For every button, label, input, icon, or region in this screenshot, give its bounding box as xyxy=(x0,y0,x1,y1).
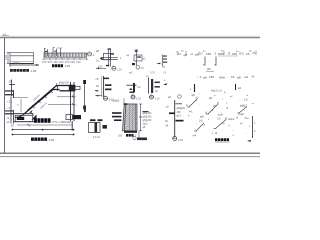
item G2 xyxy=(205,90,222,115)
svg-text:1:8: 1:8 xyxy=(244,99,248,102)
svg-text:φ8: φ8 xyxy=(237,76,241,80)
item G3 xyxy=(224,84,248,121)
stair title xyxy=(31,138,34,141)
extra tiny specks rebar table xyxy=(196,95,251,132)
band lower-left vertical xyxy=(138,131,140,140)
svg-text:√‰•: √‰• xyxy=(244,116,249,120)
svg-text:+2.1: +2.1 xyxy=(7,100,13,104)
svg-text:φ8: φ8 xyxy=(184,53,188,57)
beam label solid bar xyxy=(34,118,37,123)
vertical rebars with hooks above xyxy=(44,48,60,57)
svg-text:1:25: 1:25 xyxy=(65,64,71,68)
svg-text:f150: f150 xyxy=(218,52,224,56)
top right column xyxy=(71,82,75,131)
rebar ticks on flight xyxy=(32,90,53,108)
svg-text:150: 150 xyxy=(206,52,211,56)
svg-text:-3: -3 xyxy=(190,52,193,56)
svg-text:φ8@20: φ8@20 xyxy=(177,107,186,110)
svg-text:b1: b1 xyxy=(97,59,100,63)
svg-text:6 1:10: 6 1:10 xyxy=(93,136,101,139)
svg-text:φ12•: φ12• xyxy=(218,114,223,117)
svg-text:φ8+: φ8+ xyxy=(200,116,205,119)
svg-text:2φ12: 2φ12 xyxy=(143,124,149,126)
svg-text:φ8@200: φ8@200 xyxy=(143,120,153,122)
svg-text:φ8@150: φ8@150 xyxy=(143,117,153,119)
svg-text:1•: 1• xyxy=(186,104,188,107)
right dim line xyxy=(140,104,142,131)
svg-text:φ8: φ8 xyxy=(195,53,199,57)
dim row2 xyxy=(13,129,75,131)
svg-text:4φ12 L=2: 4φ12 L=2 xyxy=(211,90,222,93)
leaders left xyxy=(112,112,122,114)
sheet top edge ticks xyxy=(2,34,9,35)
svg-text:1500: 1500 xyxy=(13,61,19,65)
svg-text:8U: 8U xyxy=(177,52,181,56)
dim line under xyxy=(43,58,89,60)
svg-text:2φ14•: 2φ14• xyxy=(228,118,235,121)
svg-text:▬: ▬ xyxy=(95,88,98,92)
svg-text:1:10: 1:10 xyxy=(136,98,141,101)
svg-text:a•2: a•2 xyxy=(129,72,133,75)
svg-text:15: 15 xyxy=(246,52,250,56)
svg-text:φ8@200: φ8@200 xyxy=(143,113,153,115)
svg-text:,1: ,1 xyxy=(214,52,217,56)
svg-text:φ8: φ8 xyxy=(203,76,207,80)
svg-text:3+φ2: 3+φ2 xyxy=(238,113,244,116)
svg-text:150: 150 xyxy=(209,75,214,79)
svg-text:0 70: 0 70 xyxy=(150,72,155,75)
dim+label under detail3 xyxy=(96,67,106,69)
svg-text:√L: √L xyxy=(241,52,245,56)
svg-text:√h: √h xyxy=(252,51,256,55)
item G1 xyxy=(186,84,197,114)
svg-text:1:10: 1:10 xyxy=(178,139,183,142)
svg-text:φ8@2: φ8@2 xyxy=(113,100,121,103)
svg-text:1:20: 1:20 xyxy=(31,69,37,73)
svg-text:2:0: 2:0 xyxy=(217,118,221,121)
svg-text:1:30: 1:30 xyxy=(49,138,55,142)
svg-text:ω2: ω2 xyxy=(244,75,248,79)
svg-text:√2: √2 xyxy=(227,51,231,55)
svg-text:a8: a8 xyxy=(96,49,99,53)
flight bottom curve to slab xyxy=(15,114,24,118)
svg-text:φ: φ xyxy=(203,63,205,67)
lower landing slab xyxy=(14,114,36,122)
svg-text:-: - xyxy=(173,52,174,56)
svg-text:1•5: 1•5 xyxy=(199,120,203,123)
bottom blobs + title xyxy=(124,131,137,133)
top border line xyxy=(0,35,260,37)
svg-text:φ8:: φ8: xyxy=(209,97,213,100)
svg-text:160: 160 xyxy=(118,135,123,138)
svg-text:∟: ∟ xyxy=(76,104,78,107)
svg-text:√h: √h xyxy=(251,75,255,79)
title detail1 xyxy=(10,69,13,72)
dim left of rect xyxy=(7,53,10,64)
label box in slab xyxy=(15,115,33,121)
svg-text:c8: c8 xyxy=(96,77,99,81)
svg-text:φ8@200: φ8@200 xyxy=(59,82,69,85)
small mark right of F xyxy=(163,83,167,85)
svg-text:1:10: 1:10 xyxy=(117,68,122,71)
svg-text:150: 150 xyxy=(177,111,182,114)
svg-text:PTL-1 200x300: PTL-1 200x300 xyxy=(53,120,72,124)
level lines on column xyxy=(57,96,76,98)
small vertical dim mid xyxy=(20,99,22,112)
svg-text:100: 100 xyxy=(98,65,103,69)
upper landing slab into wall xyxy=(5,90,14,91)
item G5 + table title xyxy=(214,114,230,143)
hatched band xyxy=(123,104,138,131)
section circle mark xyxy=(88,52,92,56)
left level line xyxy=(14,97,28,99)
svg-text:15: 15 xyxy=(231,75,235,79)
beam blob at top joint xyxy=(69,85,76,91)
hanging verticals row2 xyxy=(205,57,216,66)
dim under rect with arrow xyxy=(10,63,40,66)
svg-text:1:10: 1:10 xyxy=(155,98,160,101)
left border line xyxy=(4,38,6,153)
section cut line 1-1 xyxy=(84,80,86,110)
dim row3 xyxy=(13,134,75,136)
svg-text:∟1: ∟1 xyxy=(197,75,202,79)
formula row 3 xyxy=(197,75,255,80)
svg-text:fδ%†: fδ%† xyxy=(219,76,226,80)
arrow at flight bottom xyxy=(29,110,33,113)
flight foot dark triangle xyxy=(32,115,37,120)
upper-left wall xyxy=(9,80,15,97)
svg-text:∟a: ∟a xyxy=(6,107,11,110)
mid-landing beam on column xyxy=(66,115,73,120)
lower-left wall xyxy=(5,110,14,111)
right text stack xyxy=(143,113,153,129)
svg-text:φ: φ xyxy=(214,63,216,67)
svg-text:150: 150 xyxy=(207,68,212,71)
item G4 xyxy=(193,116,206,138)
stair flight diagonal (two parallel lines) xyxy=(24,86,74,115)
bottom border double line xyxy=(0,152,260,154)
item G6 xyxy=(238,113,256,142)
svg-text:120: 120 xyxy=(4,55,8,60)
svg-text:φ12: φ12 xyxy=(177,115,182,118)
title detail2 xyxy=(52,64,54,67)
svg-text:150 900 150 900 150 900 150: 150 900 150 900 150 900 150 xyxy=(42,61,81,64)
